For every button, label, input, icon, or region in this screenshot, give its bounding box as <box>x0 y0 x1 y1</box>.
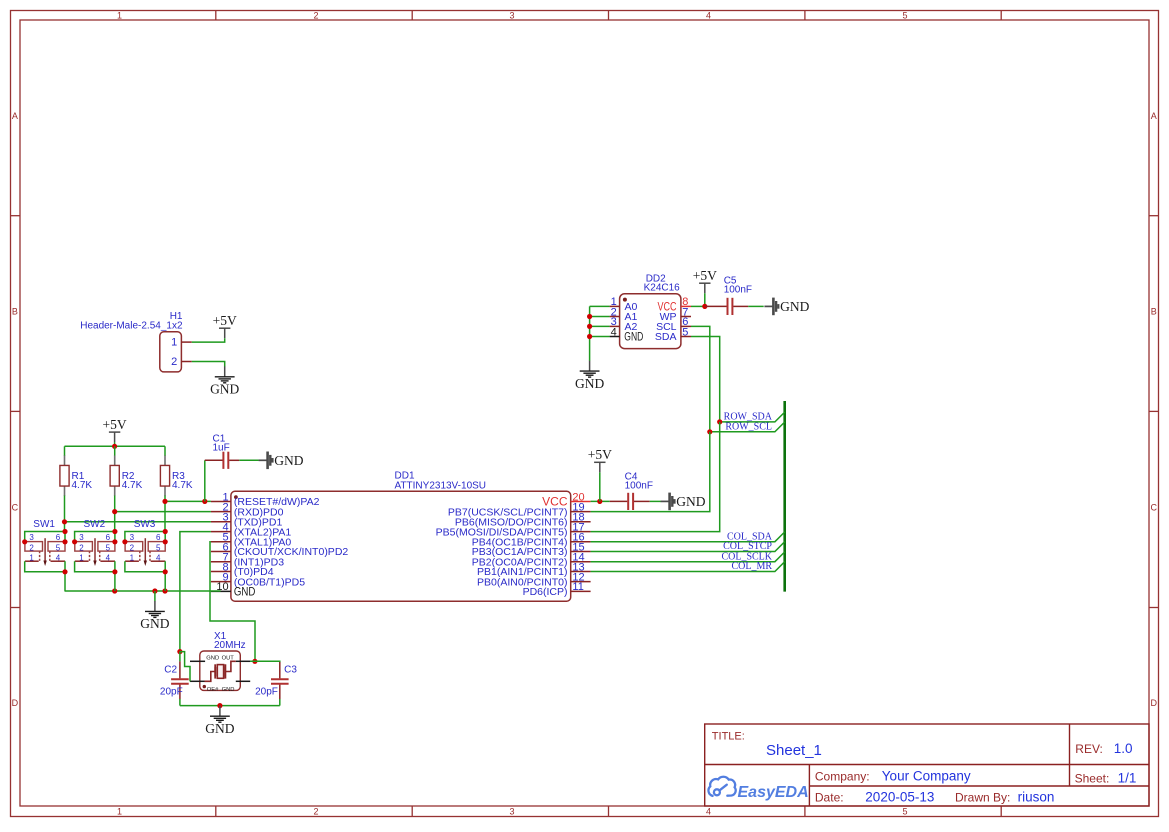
SW1 actuator arrow <box>44 538 46 560</box>
X1 pin1 marker <box>203 685 206 688</box>
capacitor C2 20pF <box>160 661 189 699</box>
bus vertical <box>783 401 786 592</box>
svg-text:6: 6 <box>106 533 111 542</box>
wire DD2 pin5 SDA to ROW_SDA <box>691 337 720 422</box>
svg-text:EasyEDA: EasyEDA <box>738 784 809 801</box>
net label ROW_SCL wire <box>710 422 785 432</box>
ground GND after C1 <box>259 452 304 470</box>
svg-text:+5V: +5V <box>103 417 127 432</box>
svg-text:3: 3 <box>509 10 514 20</box>
wire crystal ground rail <box>180 705 280 707</box>
DD2 pin 1 A0 <box>610 305 620 307</box>
wire DD1 pin5 XTAL1 down to crystal <box>210 542 255 662</box>
svg-text:D: D <box>12 698 19 708</box>
wire DD1 pin3 to R1 <box>65 521 211 523</box>
X1 crystal glyph <box>214 667 225 676</box>
wire +5V stub DD2 <box>704 293 706 306</box>
wire DD2 pin6 SCL to ROW_SCL <box>691 326 710 431</box>
wire SW1 top U <box>25 532 65 542</box>
node XTAL2 junction at C2 <box>177 649 182 654</box>
svg-text:K24C16: K24C16 <box>644 283 681 294</box>
wire XTAL2 jog to X1 OE# <box>180 652 190 682</box>
svg-text:GND: GND <box>780 299 809 314</box>
DD1 pin 5 (XTAL1)PA0 <box>211 541 231 543</box>
svg-text:100nF: 100nF <box>724 284 752 295</box>
svg-text:A: A <box>1151 111 1157 121</box>
EasyEDA logo <box>708 777 808 801</box>
svg-text:REV:: REV: <box>1075 742 1103 756</box>
wire R3 top <box>164 446 166 456</box>
node ROW_SCL junction <box>707 429 712 434</box>
ground GND at H1 <box>210 366 239 396</box>
DD1 pin 20 VCC <box>571 501 591 503</box>
DD1 pin 2 (RXD)PD0 <box>211 511 231 513</box>
svg-text:GND: GND <box>210 382 239 397</box>
svg-text:Sheet_1: Sheet_1 <box>766 742 822 759</box>
wire DD2 pin1 stub <box>590 305 610 307</box>
svg-text:6: 6 <box>156 533 161 542</box>
SW2 actuator arrow <box>94 538 96 560</box>
DD1 pin 9 (OC0B/T1)PD5 <box>211 581 231 583</box>
node pin2 junction at R2 <box>112 509 117 514</box>
wire C3 bottom <box>279 699 281 706</box>
border column ticks top <box>215 11 217 21</box>
wire X1 OUT to C3 <box>250 660 280 663</box>
node RESET junction at R3 <box>162 499 167 504</box>
svg-text:SW3: SW3 <box>134 519 156 530</box>
svg-text:5: 5 <box>106 543 111 552</box>
DD1 pin 13 PB1(AIN1/PCINT1) <box>571 571 591 573</box>
svg-text:20MHz: 20MHz <box>214 640 246 651</box>
svg-text:GND: GND <box>676 494 705 509</box>
capacitor C5 100nF <box>705 276 764 316</box>
DD2 pin 4 GND <box>610 336 620 338</box>
svg-text:4.7K: 4.7K <box>72 480 93 491</box>
ground GND at DD2 <box>575 361 604 391</box>
capacitor C1 1uF <box>205 434 259 469</box>
wire C1 to RESET net <box>204 460 206 501</box>
X1 body <box>200 651 241 690</box>
svg-text:C: C <box>1151 503 1158 513</box>
title block row divider 2 <box>809 785 1149 787</box>
svg-text:Company:: Company: <box>815 769 870 783</box>
DD1 pin 6 (CKOUT/XCK/INT0)PD2 <box>211 551 231 553</box>
svg-text:GND: GND <box>140 616 169 631</box>
wire SW1 to GND rail <box>64 572 66 591</box>
DD1 pin 3 (TXD)PD1 <box>211 521 231 523</box>
svg-text:5: 5 <box>56 543 61 552</box>
title block logo cell divider <box>808 765 810 807</box>
DD1 pin 7 (INT1)PD3 <box>211 561 231 563</box>
svg-text:OE#: OE# <box>207 687 219 693</box>
svg-text:OUT: OUT <box>222 655 235 661</box>
svg-text:ROW_SCL: ROW_SCL <box>725 421 772 432</box>
wire DD1 pin1 RESET to R3/C1 <box>165 500 211 502</box>
svg-text:1.0: 1.0 <box>1114 741 1133 756</box>
svg-text:SW1: SW1 <box>33 519 55 530</box>
svg-text:3: 3 <box>130 533 135 542</box>
svg-text:GND: GND <box>274 453 303 468</box>
svg-text:20pF: 20pF <box>160 686 183 697</box>
svg-text:1: 1 <box>130 554 135 563</box>
power +5V at DD2 <box>693 268 717 293</box>
resistor R3 <box>160 455 193 496</box>
DD1 pin 12 PB0(AIN0/PCINT0) <box>571 581 591 583</box>
svg-text:1uF: 1uF <box>213 442 230 453</box>
svg-text:100nF: 100nF <box>625 481 653 492</box>
wire DD2 pin3 stub <box>590 325 610 327</box>
svg-text:C2: C2 <box>164 665 177 676</box>
SW1 left contact box <box>25 542 43 552</box>
svg-text:COL_MR: COL_MR <box>731 561 772 572</box>
svg-text:TITLE:: TITLE: <box>712 731 745 743</box>
svg-text:SW2: SW2 <box>84 519 106 530</box>
svg-text:GND: GND <box>222 687 235 693</box>
capacitor C3 20pF <box>255 662 297 699</box>
wire SW3 to GND rail <box>164 572 166 591</box>
wire DD1 pin2 to R2 <box>115 511 211 513</box>
svg-text:+5V: +5V <box>213 313 237 328</box>
DD2 pin 8 VCC <box>681 305 691 307</box>
SW2 dashed links to pins 1/4 <box>89 551 91 561</box>
wire ROW_SCL to DD1 pin19 <box>591 432 710 512</box>
svg-text:5: 5 <box>902 10 907 20</box>
ground GND at switch rail <box>140 601 169 631</box>
border row ticks left <box>11 215 21 217</box>
SW3 left contact box <box>125 542 143 552</box>
DD1 body <box>231 491 571 601</box>
SW1 pin1/pin4 leads <box>25 560 39 562</box>
DD1 pin 19 PB7(UCSK/SCL/PCINT7) <box>571 511 591 513</box>
SW3 actuator arrow <box>144 538 146 560</box>
svg-text:2020-05-13: 2020-05-13 <box>865 790 934 805</box>
svg-text:C3: C3 <box>284 665 297 676</box>
svg-text:3: 3 <box>509 806 514 816</box>
power +5V at DD1 <box>588 447 612 472</box>
svg-text:5: 5 <box>156 543 161 552</box>
svg-text:4: 4 <box>106 554 111 563</box>
wire DD2 left pins bus to GND <box>589 306 591 361</box>
svg-text:4: 4 <box>56 554 61 563</box>
svg-text:Header-Male-2.54_1x2: Header-Male-2.54_1x2 <box>80 321 183 332</box>
svg-text:1/1: 1/1 <box>1118 771 1137 786</box>
wire SW2 bottom U <box>75 561 115 572</box>
DD2 body <box>620 294 681 349</box>
svg-text:PD6(ICP): PD6(ICP) <box>523 586 568 598</box>
svg-text:2: 2 <box>130 543 135 552</box>
net label COL_STCP wire <box>591 542 785 552</box>
svg-text:1: 1 <box>79 554 84 563</box>
IC DD1 ATTINY2313V-10SU <box>211 471 591 602</box>
ground GND after C4 <box>661 493 706 511</box>
wire C2 bottom <box>179 699 181 706</box>
DD1 pin 18 PB6(MISO/DO/PCINT6) <box>571 521 591 523</box>
svg-text:SDA: SDA <box>655 331 677 343</box>
ground GND at crystal <box>205 706 234 736</box>
wire C1 to ground <box>239 459 258 461</box>
X1 pin GND top-left <box>190 660 205 662</box>
svg-text:1: 1 <box>117 806 122 816</box>
crystal X1 20MHz <box>190 631 250 693</box>
SW3 right contact box <box>148 542 165 552</box>
svg-text:Date:: Date: <box>815 790 844 804</box>
wire GND rail drop <box>154 591 156 601</box>
svg-text:4: 4 <box>156 554 161 563</box>
svg-text:ATTINY2313V-10SU: ATTINY2313V-10SU <box>395 480 487 491</box>
DD2 pin 5 SDA <box>681 336 691 338</box>
svg-text:GND: GND <box>624 332 643 344</box>
svg-text:+5V: +5V <box>588 447 612 462</box>
border column ticks bottom <box>215 806 217 817</box>
X1 pin OUT top-right <box>236 660 250 662</box>
DD1 pin 1 (RESET#/dW)PA2 <box>211 501 231 503</box>
svg-text:4: 4 <box>706 10 711 20</box>
svg-text:B: B <box>12 307 18 317</box>
svg-text:4.7K: 4.7K <box>172 480 193 491</box>
wire SW3 top U <box>125 532 165 542</box>
wire DD2 pin4 stub <box>590 336 610 338</box>
node +5V rail junction <box>112 444 117 449</box>
resistor R1 <box>60 455 93 496</box>
svg-text:+5V: +5V <box>693 268 717 283</box>
wire ROW_SDA to DD1 pin17 <box>591 422 720 532</box>
node X1 OUT junction <box>252 659 257 664</box>
power +5V at H1 <box>213 313 237 338</box>
title block rev column divider <box>1069 724 1071 786</box>
wire C4 to ground <box>650 500 661 502</box>
wire +5V rail over resistors <box>65 445 166 447</box>
switch SW3 <box>122 519 167 591</box>
wire C2 top <box>179 652 181 662</box>
wire H1 pin1 to +5V <box>192 338 225 342</box>
DD1 pin 17 PB5(MOSI/DI/SDA/PCINT5) <box>571 531 591 533</box>
DD2 pin1 marker <box>623 298 627 302</box>
svg-text:A: A <box>12 111 18 121</box>
svg-text:3: 3 <box>79 533 84 542</box>
wire DD1 pin20 VCC <box>591 500 610 502</box>
DD1 pin 16 PB4(OC1B/PCINT4) <box>571 541 591 543</box>
svg-text:1: 1 <box>29 554 34 563</box>
DD1 pin 10 GND <box>211 590 231 592</box>
wire DD2 pin8 VCC <box>691 305 705 307</box>
junction dots DD2 left <box>587 314 592 319</box>
connector H1 Header-Male-2.54_1x2 <box>80 311 192 372</box>
svg-text:Your Company: Your Company <box>882 769 971 784</box>
DD1 pin 4 (XTAL2)PA1 <box>211 531 231 533</box>
wire SW2 to GND rail <box>114 572 116 591</box>
wire H1 pin2 to GND <box>192 362 225 367</box>
svg-text:C: C <box>12 503 19 513</box>
svg-text:4: 4 <box>611 326 617 338</box>
svg-text:1: 1 <box>171 337 177 349</box>
svg-text:3: 3 <box>29 533 34 542</box>
wire R2 top <box>114 446 116 456</box>
H1 body <box>160 332 182 372</box>
wire R1 bottom to SW1 <box>64 496 66 532</box>
SW1 dashed links to pins 1/4 <box>39 551 41 561</box>
junction dots SW1 <box>22 539 27 544</box>
SW2 pin1/pin4 leads <box>75 560 89 562</box>
wire SW1 bottom U <box>25 561 65 572</box>
SW3 pin1/pin4 leads <box>125 560 139 562</box>
svg-text:GND: GND <box>205 721 234 736</box>
title block row divider 1 <box>705 764 1149 766</box>
H1 pin 2 <box>181 361 191 363</box>
junction dots on GND rail <box>112 588 117 593</box>
wire R1 top <box>64 446 66 456</box>
svg-text:1: 1 <box>117 10 122 20</box>
svg-text:GND: GND <box>575 376 604 391</box>
svg-text:GND: GND <box>206 655 219 661</box>
switch SW1 <box>22 519 68 591</box>
SW2 right contact box <box>98 542 115 552</box>
wire SW2 top U <box>75 532 115 542</box>
wire DD1 pin4 XTAL2 down to crystal <box>180 532 211 652</box>
node pin3 junction at R1 <box>62 519 67 524</box>
SW1 right contact box <box>48 542 65 552</box>
svg-text:5: 5 <box>902 806 907 816</box>
DD1 pin 15 PB3(OC1A/PCINT3) <box>571 551 591 553</box>
wire R2 bottom to SW2 <box>114 496 116 532</box>
net label ROW_SDA wire <box>720 412 785 422</box>
DD1 pin 11 PD6(ICP) <box>571 590 591 592</box>
net label COL_SCLK wire <box>591 552 785 562</box>
svg-text:GND: GND <box>234 586 256 598</box>
node RESET junction at C1 <box>202 499 207 504</box>
resistor R2 <box>110 455 143 496</box>
switch SW2 <box>72 519 118 591</box>
SW2 left contact box <box>75 542 93 552</box>
ground GND after C5 <box>764 298 809 316</box>
DD2 pin 7 WP <box>681 316 691 318</box>
capacitor C4 100nF <box>610 472 661 510</box>
svg-text:B: B <box>1151 307 1157 317</box>
svg-text:6: 6 <box>56 533 61 542</box>
title block outline <box>705 724 1149 806</box>
DD2 pin 6 SCL <box>681 325 691 327</box>
node VCC junction at DD1 <box>597 499 602 504</box>
SW3 dashed links to pins 1/4 <box>139 551 141 561</box>
svg-text:D: D <box>1151 698 1158 708</box>
wire +5V stub to rail <box>114 442 116 446</box>
wire C5 to ground <box>748 305 763 307</box>
border row ticks right <box>1149 215 1159 217</box>
svg-text:riuson: riuson <box>1018 790 1055 805</box>
svg-text:5: 5 <box>682 326 688 338</box>
svg-text:4: 4 <box>706 806 711 816</box>
DD2 pin 3 A2 <box>610 325 620 327</box>
node VCC junction at DD2 <box>702 304 707 309</box>
svg-text:2: 2 <box>29 543 34 552</box>
X1 pin OE# bottom-left <box>190 680 205 682</box>
svg-text:2: 2 <box>171 356 177 368</box>
power +5V at resistor network <box>103 417 127 442</box>
node crystal ground junction <box>217 703 222 708</box>
svg-text:2: 2 <box>313 806 318 816</box>
wire DD2 pin2 stub <box>590 316 610 318</box>
X1 pin GND bottom-right <box>236 680 250 682</box>
junction dots SW3 <box>122 539 127 544</box>
svg-text:20pF: 20pF <box>255 686 278 697</box>
junction dots SW2 <box>72 539 77 544</box>
net label COL_SDA wire <box>591 532 785 542</box>
H1 pin 1 <box>181 341 191 343</box>
svg-text:Sheet:: Sheet: <box>1075 771 1110 785</box>
svg-text:4.7K: 4.7K <box>122 480 143 491</box>
svg-text:2: 2 <box>79 543 84 552</box>
DD1 pin 8 (T0)PD4 <box>211 571 231 573</box>
wire GND rail to DD1 pin10 <box>65 590 221 592</box>
DD1 pin1 marker <box>234 495 238 499</box>
DD2 pin 2 A1 <box>610 316 620 318</box>
wire R3 bottom to SW3 <box>164 496 166 532</box>
node ROW_SDA junction <box>717 419 722 424</box>
svg-text:11: 11 <box>572 581 583 593</box>
wire +5V stub at DD1 <box>599 472 601 501</box>
wire SW3 bottom U <box>125 561 165 572</box>
svg-text:Drawn By:: Drawn By: <box>955 790 1010 804</box>
svg-text:2: 2 <box>313 10 318 20</box>
DD1 pin 14 PB2(OC0A/PCINT2) <box>571 561 591 563</box>
IC DD2 K24C16 <box>610 274 691 349</box>
net label COL_MR wire <box>591 562 785 572</box>
